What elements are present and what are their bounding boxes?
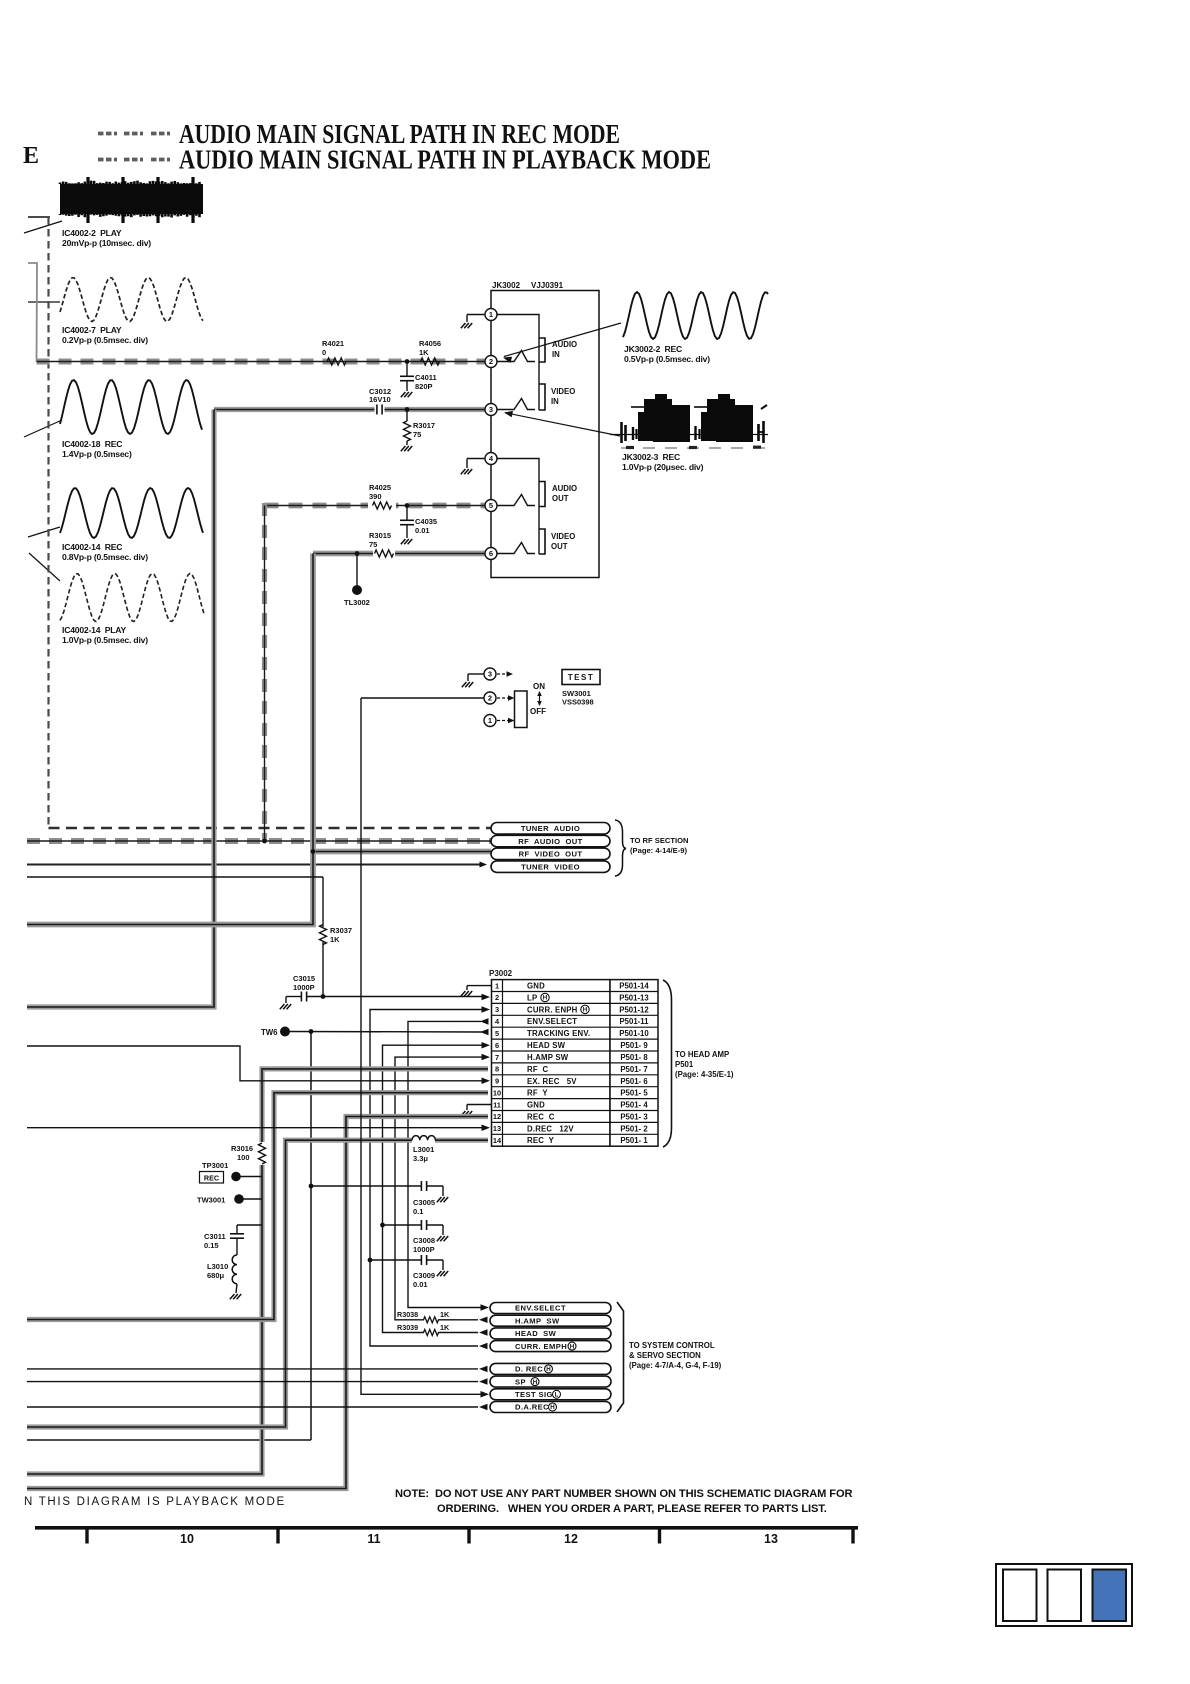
pin 2 of JK3002: [485, 356, 497, 368]
svg-text:C4035: C4035: [415, 517, 437, 526]
svg-text:100: 100: [237, 1153, 250, 1162]
svg-text:IC4002-14 PLAY: IC4002-14 PLAY: [62, 625, 127, 635]
wire: LP line via R3037/C3015: [27, 876, 323, 878]
svg-text:R4025: R4025: [369, 483, 391, 492]
svg-text:TO SYSTEM CONTROL: TO SYSTEM CONTROL: [629, 1341, 715, 1350]
wire TUNER AUDIO (dashed playback): [49, 827, 492, 829]
svg-text:REC C: REC C: [527, 1113, 555, 1122]
svg-text:12: 12: [564, 1532, 578, 1546]
svg-text:5: 5: [489, 501, 493, 510]
svg-text:L3001: L3001: [413, 1145, 434, 1154]
svg-text:H.AMP SW: H.AMP SW: [527, 1053, 569, 1062]
svg-text:0.01: 0.01: [413, 1280, 428, 1289]
P3002 pin 1 ground: [467, 985, 491, 987]
net label RF VIDEO OUT: [491, 848, 610, 860]
capacitor C3015: [286, 996, 302, 998]
svg-text:R3037: R3037: [330, 926, 352, 935]
bracket to system control: [617, 1302, 624, 1412]
svg-text:P501- 7: P501- 7: [620, 1065, 647, 1074]
svg-text:13: 13: [493, 1124, 501, 1133]
svg-text:OUT: OUT: [552, 494, 569, 503]
svg-text:LP: LP: [527, 994, 537, 1003]
svg-text:R3016: R3016: [231, 1144, 253, 1153]
svg-text:R4021: R4021: [322, 339, 344, 348]
leader arrow pin 3 to JK3002-3: [505, 413, 620, 436]
svg-text:8: 8: [495, 1065, 499, 1074]
svg-text:3: 3: [489, 405, 493, 414]
svg-text:0.8Vp-p (0.5msec. div): 0.8Vp-p (0.5msec. div): [62, 552, 148, 562]
wire D.REC from left: [27, 1368, 478, 1370]
svg-text:L3010: L3010: [207, 1262, 228, 1271]
svg-text:TEST SIG: TEST SIG: [515, 1390, 553, 1399]
svg-text:D.A.REC: D.A.REC: [515, 1403, 549, 1412]
switch SW3001 body: [515, 691, 528, 728]
svg-text:1.0Vp-p (0.5msec. div): 1.0Vp-p (0.5msec. div): [62, 635, 148, 645]
pin 3 of JK3002: [485, 404, 497, 416]
svg-text:2: 2: [488, 694, 492, 703]
svg-text:IC4002-2 PLAY: IC4002-2 PLAY: [62, 228, 122, 238]
leader line to IC4002-18 waveform: [24, 420, 62, 437]
leader line to IC4002-14 REC waveform: [28, 527, 60, 537]
svg-text:1.4Vp-p (0.5msec): 1.4Vp-p (0.5msec): [62, 449, 132, 459]
svg-text:3: 3: [488, 670, 492, 679]
svg-text:1K: 1K: [440, 1310, 450, 1319]
svg-text:C3008: C3008: [413, 1236, 435, 1245]
svg-text:RF VIDEO OUT: RF VIDEO OUT: [519, 850, 583, 859]
jack sleeve VIDEO IN: [539, 384, 545, 410]
svg-text:C3005: C3005: [413, 1198, 435, 1207]
legend dash sample PLAYBACK mode: [98, 158, 117, 162]
switch SW3001 pin 1: [484, 715, 496, 727]
svg-text:EX. REC 5V: EX. REC 5V: [527, 1077, 577, 1086]
svg-text:H: H: [583, 1007, 588, 1014]
wire H.AMP SW: P3002 pin7 to H.AMP SW label via R3038: [395, 1057, 483, 1320]
jack sleeve VIDEO OUT: [539, 529, 545, 554]
svg-text:TO RF SECTION: TO RF SECTION: [630, 836, 689, 845]
resistor R3037: [320, 925, 327, 945]
svg-text:REC Y: REC Y: [527, 1136, 555, 1145]
svg-text:OFF: OFF: [530, 707, 546, 716]
TEST box label: [562, 670, 600, 685]
svg-text:1: 1: [495, 981, 499, 990]
svg-text:P501: P501: [675, 1060, 694, 1069]
grid ruler line: [35, 1526, 858, 1530]
svg-text:(Page: 4-35/E-1): (Page: 4-35/E-1): [675, 1070, 734, 1079]
svg-text:10: 10: [493, 1089, 501, 1098]
wire stub top-left: [28, 216, 50, 218]
svg-text:IN: IN: [551, 397, 559, 406]
svg-text:P501-10: P501-10: [619, 1029, 649, 1038]
waveform JK3002-3 REC (video burst): [610, 394, 768, 448]
svg-text:AUDIO: AUDIO: [552, 484, 577, 493]
resistor R3016: [259, 1143, 266, 1164]
svg-text:VIDEO: VIDEO: [551, 387, 575, 396]
svg-text:0.2Vp-p (0.5msec. div): 0.2Vp-p (0.5msec. div): [62, 335, 148, 345]
capacitor C3012: [375, 404, 385, 416]
svg-text:C3015: C3015: [293, 974, 315, 983]
svg-text:ENV.SELECT: ENV.SELECT: [527, 1017, 577, 1026]
wire: AUDIO OUT line from JK3002-5 (playback audio path): [265, 503, 492, 509]
net label ENV.SELECT (to system control): [490, 1303, 611, 1314]
switch SW3001 pin 3 with ground: [468, 673, 484, 675]
svg-text:0.15: 0.15: [204, 1241, 219, 1250]
wire CURR.ENPH: P3002 pin3 to CURR.EMPH label: [370, 1010, 483, 1347]
svg-text:AUDIO MAIN SIGNAL PATH IN PLAY: AUDIO MAIN SIGNAL PATH IN PLAYBACK MODE: [179, 144, 711, 175]
active page box (blue): [1093, 1570, 1127, 1622]
net label D.A.REC (H): [490, 1402, 611, 1413]
net label HEAD SW: [490, 1328, 611, 1339]
net label TEST SIG (L): [490, 1389, 611, 1400]
pin 5 of JK3002: [485, 500, 497, 512]
svg-text:D. REC: D. REC: [515, 1365, 543, 1374]
connector JK3002 outline: [491, 291, 599, 578]
svg-text:820P: 820P: [415, 382, 433, 391]
svg-text:IC4002-14 REC: IC4002-14 REC: [62, 542, 122, 552]
svg-text:C4011: C4011: [415, 373, 437, 382]
svg-text:JK3002: JK3002: [492, 281, 521, 290]
svg-text:N THIS DIAGRAM IS PLAYBACK MOD: N THIS DIAGRAM IS PLAYBACK MODE: [24, 1496, 286, 1508]
wire: stub corner to audio-in line: [28, 263, 37, 362]
leader arrow JK3002-2 to pin 2: [504, 323, 621, 357]
wire: VIDEO IN line to JK3002-3 (REC video path): [214, 407, 491, 412]
wire RF AUDIO OUT (gray dash over black): [27, 838, 491, 844]
svg-text:RF Y: RF Y: [527, 1089, 548, 1098]
resistor R3038: [424, 1317, 439, 1323]
svg-text:75: 75: [369, 540, 377, 549]
svg-text:TUNER VIDEO: TUNER VIDEO: [521, 862, 580, 871]
svg-text:R3015: R3015: [369, 531, 391, 540]
svg-text:12: 12: [493, 1112, 501, 1121]
svg-text:VSS0398: VSS0398: [562, 698, 594, 707]
leader line to IC4002-7 waveform: [28, 301, 60, 303]
inductor L3010: [236, 1238, 238, 1255]
svg-text:H: H: [570, 1343, 575, 1350]
svg-text:1K: 1K: [440, 1323, 450, 1332]
wire D.REC 12V to P3002 pin13: [27, 1127, 483, 1129]
svg-text:1K: 1K: [330, 935, 340, 944]
pin 1 of JK3002 with ground: [467, 314, 485, 316]
svg-text:1000P: 1000P: [413, 1245, 435, 1254]
svg-text:ORDERING. WHEN YOU ORDER A P: ORDERING. WHEN YOU ORDER A PART, PLEASE …: [437, 1503, 827, 1515]
waveform IC4002-18 REC (sine): [60, 380, 202, 434]
wire: TRACKING ENV from TW6 to P3002 pin 5: [290, 1031, 482, 1034]
svg-text:& SERVO SECTION: & SERVO SECTION: [629, 1351, 701, 1360]
svg-text:75: 75: [413, 430, 421, 439]
wire: LP to P3002 pin 2: [323, 996, 483, 998]
svg-text:C3011: C3011: [204, 1232, 226, 1241]
svg-text:2: 2: [489, 357, 493, 366]
svg-text:6: 6: [489, 549, 493, 558]
svg-text:(Page: 4-14/E-9): (Page: 4-14/E-9): [630, 846, 687, 855]
svg-text:R3039: R3039: [397, 1323, 418, 1332]
net label TUNER VIDEO: [491, 861, 610, 873]
svg-text:1000P: 1000P: [293, 983, 315, 992]
svg-text:H: H: [550, 1404, 555, 1411]
svg-text:R4056: R4056: [419, 339, 441, 348]
capacitor C3011: [237, 1224, 262, 1226]
svg-text:TW6: TW6: [261, 1028, 278, 1037]
wire HEAD SW: P3002 pin6 to HEAD SW label via R3039: [383, 1045, 484, 1332]
svg-text:1: 1: [489, 310, 493, 319]
svg-text:VJJ0391: VJJ0391: [531, 281, 564, 290]
grid ruler ticks: [85, 1526, 88, 1544]
bus: x=311 vertical (TW6 net) down and out left: [310, 1032, 312, 1441]
wire D.A.REC from left: [27, 1406, 478, 1408]
svg-text:P501-12: P501-12: [619, 1005, 649, 1014]
waveform IC4002-7 PLAY (dashed sine): [60, 278, 203, 322]
capacitor C4035: [405, 503, 410, 508]
resistor R3039: [424, 1330, 439, 1336]
svg-text:7: 7: [495, 1053, 499, 1062]
svg-text:HEAD SW: HEAD SW: [527, 1041, 566, 1050]
svg-text:P501- 1: P501- 1: [620, 1136, 648, 1145]
svg-text:H: H: [543, 995, 548, 1002]
svg-text:0.5Vp-p (0.5msec. div): 0.5Vp-p (0.5msec. div): [624, 354, 710, 364]
jack tip contact pin5: [497, 495, 535, 506]
svg-text:0: 0: [322, 348, 326, 357]
svg-text:P501- 5: P501- 5: [620, 1089, 648, 1098]
svg-text:TRACKING ENV.: TRACKING ENV.: [527, 1029, 590, 1038]
net label H.AMP SW: [490, 1315, 611, 1326]
wire TEST SIG from SW3001 bus: [361, 698, 482, 1394]
P3002 pin 11 ground: [467, 1104, 491, 1106]
bus RF C: P3002 pin8 via R3016 down and out left: [262, 1069, 488, 1142]
svg-text:9: 9: [495, 1077, 499, 1086]
svg-text:TUNER AUDIO: TUNER AUDIO: [521, 824, 580, 833]
resistor R4025: [368, 499, 396, 512]
svg-text:VIDEO: VIDEO: [551, 532, 575, 541]
svg-text:P501- 2: P501- 2: [620, 1124, 648, 1133]
svg-text:0.1: 0.1: [413, 1207, 423, 1216]
wire RF VIDEO OUT (thick gray): [313, 849, 491, 855]
svg-text:H: H: [546, 1366, 551, 1373]
svg-text:3.3μ: 3.3μ: [413, 1154, 428, 1163]
svg-text:GND: GND: [527, 1101, 545, 1110]
net label RF AUDIO OUT: [491, 835, 610, 847]
svg-text:RF AUDIO OUT: RF AUDIO OUT: [518, 837, 582, 846]
svg-text:2: 2: [495, 993, 499, 1002]
bus RF Y: P3002 pin10 out left: [27, 1093, 488, 1320]
svg-text:TEST: TEST: [568, 673, 594, 682]
waveform IC4002-2 PLAY (noise burst): [60, 177, 203, 223]
svg-text:(Page: 4-7/A-4, G-4, F-19): (Page: 4-7/A-4, G-4, F-19): [629, 1361, 722, 1370]
test point TL3002: [355, 551, 360, 556]
svg-text:6: 6: [495, 1041, 499, 1050]
svg-text:1K: 1K: [419, 348, 429, 357]
svg-text:1: 1: [488, 716, 492, 725]
svg-text:C3009: C3009: [413, 1271, 435, 1280]
svg-text:IN: IN: [552, 350, 560, 359]
capacitor C4011: [405, 359, 410, 364]
resistor R4056: [421, 358, 440, 365]
svg-text:TO HEAD AMP: TO HEAD AMP: [675, 1050, 729, 1059]
inductor L3001: [412, 1136, 435, 1141]
svg-text:JK3002-2 REC: JK3002-2 REC: [624, 344, 682, 354]
svg-text:ENV.SELECT: ENV.SELECT: [515, 1304, 566, 1313]
svg-text:5: 5: [495, 1029, 499, 1038]
brace to RF section: [615, 820, 626, 876]
jack common bar (input jacks): [497, 315, 539, 411]
bus: video-out path x=313 to RF VIDEO OUT and out left: [27, 554, 313, 925]
leader line to IC4002-2 waveform: [24, 221, 62, 233]
svg-text:P501- 6: P501- 6: [620, 1077, 648, 1086]
net label SP (H): [490, 1376, 611, 1387]
svg-text:P501-11: P501-11: [619, 1017, 649, 1026]
svg-text:P501- 8: P501- 8: [620, 1053, 648, 1062]
wire from SW3001 pin2 to x=361 bus: [361, 697, 484, 699]
svg-text:14: 14: [493, 1136, 502, 1145]
capacitor C3008: [380, 1223, 385, 1228]
waveform IC4002-14 PLAY (dashed sine): [60, 574, 204, 622]
svg-text:IC4002-18 REC: IC4002-18 REC: [62, 439, 122, 449]
svg-text:HEAD SW: HEAD SW: [515, 1329, 557, 1338]
pin 6 of JK3002: [485, 548, 497, 560]
svg-text:10: 10: [180, 1532, 194, 1546]
svg-text:SP: SP: [515, 1377, 526, 1386]
wire: VIDEO OUT line from JK3002-6 (video path): [313, 551, 491, 557]
svg-text:P3002: P3002: [489, 969, 513, 978]
bus REC C: P3002 pin12 out left: [27, 1117, 488, 1489]
svg-text:RF C: RF C: [527, 1065, 549, 1074]
svg-text:H: H: [533, 1379, 538, 1386]
waveform IC4002-14 REC (sine): [60, 488, 203, 538]
svg-text:TP3001: TP3001: [202, 1161, 228, 1170]
svg-text:R3017: R3017: [413, 421, 435, 430]
net label CURR. EMPH (H): [490, 1341, 611, 1352]
svg-text:H.AMP SW: H.AMP SW: [515, 1316, 560, 1325]
svg-text:D.REC 12V: D.REC 12V: [527, 1124, 574, 1133]
capacitor C3009: [368, 1258, 373, 1263]
page indicator boxes: [996, 1564, 1132, 1626]
svg-text:680μ: 680μ: [207, 1271, 225, 1280]
test point TW6: [280, 1027, 290, 1037]
bus REC Y: P3002 pin14 via L3001 out left: [27, 1140, 412, 1427]
wire TUNER VIDEO: [27, 864, 484, 866]
svg-text:P501- 9: P501- 9: [620, 1041, 648, 1050]
svg-text:L: L: [555, 1392, 559, 1399]
jack tip contact pin6: [497, 543, 535, 554]
svg-text:GND: GND: [527, 982, 545, 991]
svg-text:R3038: R3038: [397, 1310, 418, 1319]
wire EX.REC 5V to P3002 pin9: [27, 1046, 483, 1081]
jack sleeve AUDIO OUT: [539, 482, 545, 507]
svg-text:CURR. ENPH: CURR. ENPH: [527, 1005, 578, 1014]
resistor R4021: [327, 358, 346, 365]
svg-text:NOTE: DO NOT USE ANY PART NUM: NOTE: DO NOT USE ANY PART NUMBER SHOWN O…: [395, 1488, 852, 1500]
legend dash sample REC mode: [98, 132, 117, 136]
svg-text:CURR. EMPH: CURR. EMPH: [515, 1342, 567, 1351]
svg-text:P501- 4: P501- 4: [620, 1101, 648, 1110]
svg-text:0.01: 0.01: [415, 526, 430, 535]
svg-text:TL3002: TL3002: [344, 598, 370, 607]
resistor R3015: [373, 547, 395, 560]
jack common bar (output jacks): [497, 459, 539, 555]
svg-text:1.0Vp-p (20μsec. div): 1.0Vp-p (20μsec. div): [622, 462, 704, 472]
svg-text:IC4002-7 PLAY: IC4002-7 PLAY: [62, 325, 122, 335]
svg-text:ON: ON: [533, 682, 545, 691]
svg-text:P501-14: P501-14: [619, 982, 649, 991]
svg-text:11: 11: [493, 1100, 501, 1109]
svg-text:13: 13: [764, 1532, 778, 1546]
wire: dashed vertical playback bus x=48: [47, 217, 49, 828]
bus: audio-out playback path vertical x=264.5: [262, 503, 267, 841]
capacitor C3005: [309, 1184, 314, 1189]
svg-text:P501- 3: P501- 3: [620, 1113, 648, 1122]
bus: REC video path x=214 down and out left: [27, 410, 214, 1008]
svg-text:16V10: 16V10: [369, 395, 391, 404]
svg-text:REC: REC: [204, 1173, 219, 1182]
leader line to IC4002-14 PLAY waveform: [29, 553, 60, 581]
jack tip contact pin3: [497, 399, 535, 410]
wire ENV.SELECT: P3002 pin4 to ENV.SELECT label: [408, 1021, 482, 1307]
svg-text:390: 390: [369, 492, 382, 501]
net label TUNER AUDIO: [491, 823, 610, 835]
bracket right of P3002: [663, 980, 672, 1147]
wire SP from left: [27, 1381, 478, 1383]
waveform JK3002-2 REC (sine): [623, 292, 768, 339]
svg-text:11: 11: [367, 1532, 380, 1546]
svg-text:TW3001: TW3001: [197, 1196, 225, 1205]
svg-text:3: 3: [495, 1005, 499, 1014]
connector P3002 table: [492, 980, 659, 1147]
svg-text:20mVp-p (10msec. div): 20mVp-p (10msec. div): [62, 238, 151, 248]
resistor R3017: [405, 407, 410, 412]
svg-text:E: E: [23, 143, 39, 169]
jack tip contact pin2: [497, 351, 535, 362]
jack sleeve AUDIO IN: [539, 338, 545, 362]
net label D. REC (H): [490, 1363, 611, 1374]
pin 4 of JK3002 with ground: [467, 458, 485, 460]
svg-text:OUT: OUT: [551, 542, 568, 551]
switch SW3001 pin 2: [484, 692, 496, 704]
svg-text:P501-13: P501-13: [619, 994, 649, 1003]
wire: AUDIO IN line to JK3002-2: [37, 359, 492, 365]
svg-text:JK3002-3 REC: JK3002-3 REC: [622, 452, 680, 462]
